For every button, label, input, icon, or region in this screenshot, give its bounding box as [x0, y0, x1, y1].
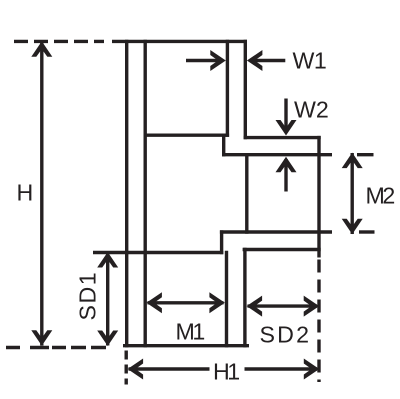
svg-text:H: H — [17, 179, 34, 205]
part outline: upper boss line A — [244, 136, 321, 139]
arrowhead SD2 left-pointing — [247, 296, 263, 317]
arrowhead H1 right-pointing — [304, 359, 320, 380]
extension dashed line bottom left vertical — [124, 351, 127, 385]
arrowhead W1 right-pointing — [210, 50, 226, 71]
arrowhead W1 left-pointing — [247, 50, 263, 71]
dimension M1 line — [148, 301, 224, 304]
dimension W2 upper shaft — [284, 99, 287, 133]
part outline: jog vertical under web — [222, 134, 225, 157]
part outline: boss top line B — [222, 153, 332, 156]
part outline: boss left upper vertical — [245, 153, 248, 234]
arrowhead W2 up — [276, 157, 297, 173]
dimension H1 line left segment — [129, 367, 210, 370]
dimension W2 lower shaft — [284, 159, 287, 192]
svg-text:M2: M2 — [366, 183, 395, 209]
arrowhead SD1 up — [97, 252, 118, 268]
svg-text:H1: H1 — [213, 359, 239, 385]
part outline: boss right vertical — [317, 136, 320, 258]
part outline: lower vertical Vb — [225, 251, 228, 348]
svg-text:SD2: SD2 — [260, 322, 312, 348]
svg-text:W1: W1 — [293, 47, 327, 73]
extension dashed line bottom left — [6, 346, 106, 349]
part outline: lower boss line C3 — [243, 248, 321, 251]
dimension W1 right leader — [250, 59, 285, 62]
arrowhead H up — [31, 41, 52, 57]
svg-text:W2: W2 — [294, 96, 329, 122]
part outline: lower web line C2 — [93, 251, 223, 254]
arrowhead H down — [31, 330, 52, 346]
M2 extension dash bottom — [359, 230, 375, 233]
part outline: lower vertical Vsd2 — [243, 248, 246, 348]
part outline: boss bottom line C1 — [220, 230, 332, 233]
dimension H shaft — [40, 42, 43, 346]
part outline: left inner vertical — [143, 40, 146, 348]
dimension M2 shaft — [351, 153, 354, 234]
dimension SD1 shaft — [106, 253, 109, 346]
arrowhead H1 left-pointing — [128, 359, 144, 380]
arrowhead M2 down — [342, 219, 363, 235]
dimension H1 line right segment — [245, 367, 318, 370]
part outline: web top line — [144, 133, 230, 136]
arrowhead M2 up — [342, 153, 363, 169]
part outline: top edge — [112, 40, 247, 43]
part outline: flange right vertical — [244, 40, 247, 140]
extension dashed line right vertical — [317, 260, 320, 383]
part outline: left outer vertical — [125, 40, 128, 348]
part outline: flange left vertical — [226, 40, 229, 137]
dimension SD2 line — [248, 304, 318, 307]
dimension W1 left leader — [186, 59, 223, 62]
arrowhead M1 left-pointing — [146, 292, 162, 313]
arrowhead SD1 down — [97, 331, 118, 347]
svg-text:M1: M1 — [176, 319, 205, 345]
arrowhead W2 down — [276, 120, 297, 136]
part outline: bottom edge — [123, 344, 249, 347]
arrowhead M1 right-pointing — [209, 292, 225, 313]
svg-text:SD1: SD1 — [74, 271, 100, 321]
arrowhead SD2 right-pointing — [304, 296, 320, 317]
M2 extension dash top — [357, 153, 374, 156]
part outline: step vertical Va — [220, 230, 223, 254]
extension dashed line top left — [14, 40, 104, 43]
